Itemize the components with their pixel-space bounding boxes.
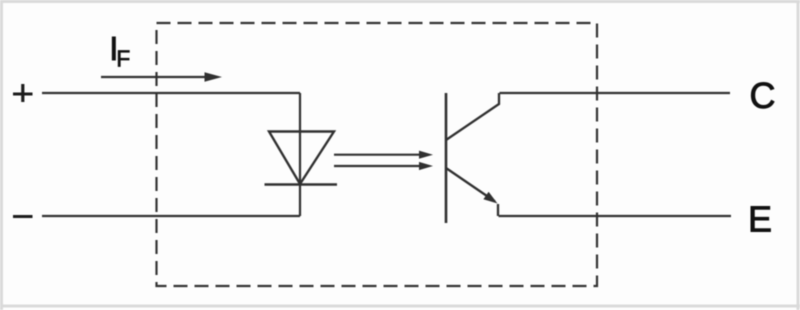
svg-text:F: F (116, 46, 130, 72)
svg-text:E: E (748, 199, 772, 240)
svg-text:C: C (750, 75, 776, 116)
